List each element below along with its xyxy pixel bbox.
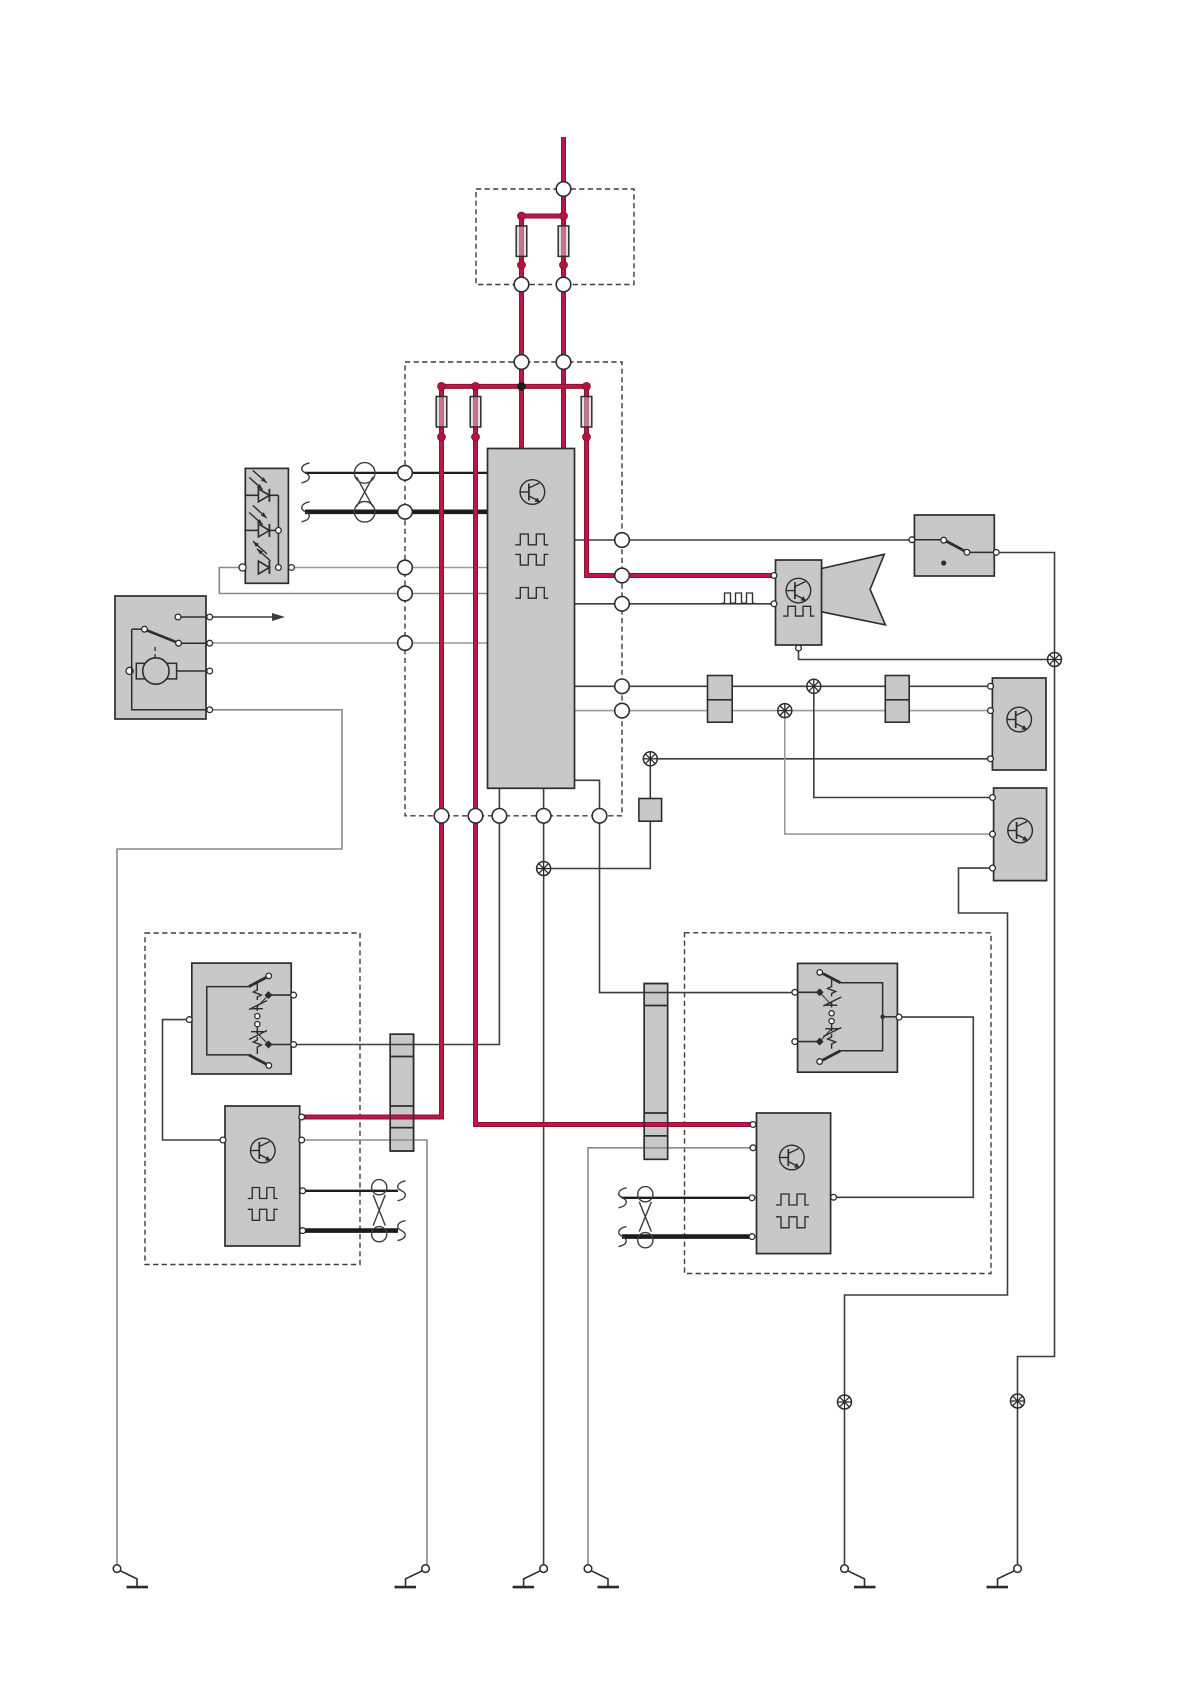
horn polygon [822, 554, 886, 625]
ground G1 [113, 1565, 121, 1573]
connector strip C2 (right door) [644, 984, 668, 1160]
wire: signal B (thick black pair top) [305, 509, 488, 514]
relay K2 pins [990, 795, 996, 801]
splice S4 [643, 752, 657, 766]
left lock switch body [192, 963, 291, 1074]
red junction c [438, 383, 446, 391]
red junction g [560, 261, 568, 269]
red junction e [583, 383, 591, 391]
connector ring 14 [615, 679, 630, 694]
wire: indicator arrow [210, 616, 274, 618]
splice S5 [537, 862, 551, 876]
siren PWM glyph [783, 606, 814, 616]
ground G6 [1014, 1565, 1022, 1573]
wire: LED return loop [219, 568, 487, 594]
connector strip C1 (left door) [390, 1034, 413, 1151]
ground G2 [422, 1565, 430, 1573]
PWM glyph on wire [722, 593, 755, 603]
wire: K2 pin1 feed [814, 686, 993, 797]
photocell pin c [289, 565, 295, 571]
break squiggle E [619, 1188, 627, 1208]
relay K2 transistor [1008, 818, 1033, 843]
left door K PWM 2 [248, 1209, 278, 1220]
wire: left K gray to ground [302, 1140, 427, 1569]
connector ring 7 [398, 505, 413, 520]
left door K body [225, 1106, 300, 1246]
connector ring 1 [556, 182, 571, 197]
right door K transistor [780, 1145, 805, 1170]
connector ring 9 [398, 586, 413, 601]
wire: hood switch down-lead [996, 553, 1054, 1569]
ground G5 [841, 1565, 849, 1573]
connector ring 13 [615, 597, 630, 612]
LED 3 [258, 561, 269, 574]
right door K pins [750, 1122, 756, 1128]
module PWM glyph 1 [515, 534, 548, 545]
lock motor internal ground [132, 629, 210, 710]
break squiggle A [302, 463, 310, 483]
hood switch contact [914, 539, 943, 541]
left door K pins [220, 1137, 226, 1143]
fuse F5 [581, 397, 592, 428]
twisted pair (right door) [638, 1187, 653, 1202]
wire: K2 pin2 feed [785, 711, 993, 835]
right lock switch body [798, 963, 898, 1072]
wire: lock switch to module [210, 642, 488, 644]
wire: splice box to ground bus [544, 821, 651, 868]
lock motor edge pins [207, 614, 213, 620]
hood switch pins [909, 537, 915, 543]
connector pair P2 [885, 676, 909, 700]
connector ring 19 [536, 809, 551, 824]
wire: signal A (black pair top) [305, 472, 488, 474]
red wire: feed to siren [587, 386, 775, 575]
wire: siren ground [799, 648, 1055, 660]
connector ring 12 [615, 568, 630, 583]
wire: splice drop [649, 759, 651, 799]
connector strip C1 outline [390, 1034, 413, 1151]
fuse F3 [436, 397, 447, 428]
fuse F2 [558, 226, 569, 257]
right door K body [757, 1113, 831, 1254]
wire: right K gray to ground [588, 1148, 753, 1569]
wire: K2 ground run [845, 868, 1008, 1569]
photocell pin b [276, 565, 282, 571]
relay K1 transistor [1007, 707, 1032, 732]
break squiggle F [619, 1227, 627, 1247]
wire: module to K1 pin2 [575, 710, 991, 712]
wire: right K signal (black) [622, 1197, 752, 1199]
red wire: feed to right door K [476, 386, 754, 1124]
right door K PWM 1 [776, 1194, 809, 1205]
splice S3 [778, 704, 792, 718]
connector ring 17 [468, 809, 483, 824]
module transistor symbol [520, 480, 545, 505]
break squiggle D [398, 1221, 406, 1241]
left door K transistor [250, 1138, 275, 1163]
wire: left lock switch loop [163, 1020, 224, 1140]
black junction node [517, 382, 526, 391]
module PWM glyph 3 [515, 588, 548, 599]
relay K1 body [992, 678, 1046, 770]
right door K PWM 2 [776, 1217, 809, 1228]
connector ring 15 [615, 703, 630, 718]
central control module body [488, 449, 575, 789]
connector ring 10 [398, 636, 413, 651]
wire: module to right lock switch [575, 780, 795, 992]
connector ring 11 [615, 533, 630, 548]
hood switch body [914, 515, 994, 576]
red junction b [560, 212, 568, 220]
red wire: distribution bus [442, 384, 587, 389]
fuse F1 [516, 226, 527, 257]
connector ring 18 [492, 809, 507, 824]
photocell pin a [276, 528, 282, 534]
wire: splice to K1 pin3 [650, 758, 990, 760]
connector ring 8 [398, 560, 413, 575]
wire: module to hood switch [575, 539, 912, 541]
splice S1 [1048, 653, 1062, 667]
wire: right K signal (thick black) [622, 1234, 752, 1239]
break squiggle B [302, 502, 310, 522]
red junction h [438, 433, 446, 441]
splice junction box [639, 799, 662, 822]
dashed box: central electronic module [405, 362, 622, 816]
red junction j [583, 433, 591, 441]
siren relay body [776, 560, 822, 645]
connector ring 20 [592, 809, 607, 824]
wire: module PWM to siren [575, 603, 775, 605]
connector pair P1 [708, 676, 733, 700]
photodiode 2 [245, 529, 258, 531]
connector ring 16 [434, 809, 449, 824]
right lock switch pins [792, 989, 798, 995]
wire: left K signal (black) [303, 1190, 398, 1192]
lock switch blade [132, 628, 146, 630]
ground G4 [584, 1565, 592, 1573]
left door K PWM 1 [248, 1188, 278, 1199]
ground G3 [540, 1565, 548, 1573]
red wire: feed to left door K [302, 386, 442, 1117]
connector strip C2 outline [644, 984, 668, 1160]
relay K1 pins [988, 683, 994, 689]
splice S7 [1011, 1394, 1025, 1408]
splice S6 [838, 1395, 852, 1409]
fuse F4 [470, 397, 481, 428]
connector ring 5 [556, 355, 571, 370]
red junction f [518, 261, 526, 269]
connector ring 6 [398, 466, 413, 481]
wire: motor ground run [117, 710, 342, 1569]
twisted pair (left door) [372, 1180, 387, 1195]
photocell unit body [245, 468, 288, 583]
red wire: battery feed [561, 137, 566, 449]
siren pins [771, 573, 777, 579]
dashed box: fuse holder (top) [476, 189, 634, 285]
wire: right lock switch to K [834, 1017, 974, 1197]
wire: module to left lock switch [294, 788, 500, 1044]
twisted pair (top) [354, 463, 375, 484]
connector ring 4 [514, 355, 529, 370]
wire: module to K1 pin1 [575, 685, 991, 687]
relay K2 body [994, 788, 1047, 881]
break squiggle C [398, 1181, 406, 1201]
lock motor unit body [115, 596, 206, 719]
red junction i [472, 433, 480, 441]
dashed box: right door unit [685, 933, 992, 1274]
mech link dashed [154, 647, 156, 659]
wire: photodiode out [292, 567, 488, 569]
motor M [136, 663, 176, 679]
photocell internal bus [277, 495, 279, 567]
right lock switch internals [840, 983, 882, 1051]
siren transistor symbol [786, 578, 811, 603]
lock motor pin wire [178, 616, 210, 618]
photocell pin d [239, 564, 246, 571]
red junction a [518, 212, 526, 220]
connector ring 3 [556, 277, 571, 292]
red junction d [472, 383, 480, 391]
module PWM glyph 2 [515, 554, 548, 565]
connector ring 2 [514, 277, 529, 292]
left lock switch pins [186, 1017, 192, 1023]
wire: module ground drop [543, 788, 545, 1568]
dashed box: left door unit [145, 933, 360, 1265]
red wire: fused feed 2 [519, 216, 524, 449]
red wire: fuse bridge [522, 214, 564, 219]
left lock switch internals [207, 987, 249, 1055]
photodiode 1 [245, 494, 258, 496]
splice S2 [807, 679, 821, 693]
lock motor pin circle [175, 614, 181, 620]
wire: left K signal (thick black) [303, 1228, 398, 1233]
